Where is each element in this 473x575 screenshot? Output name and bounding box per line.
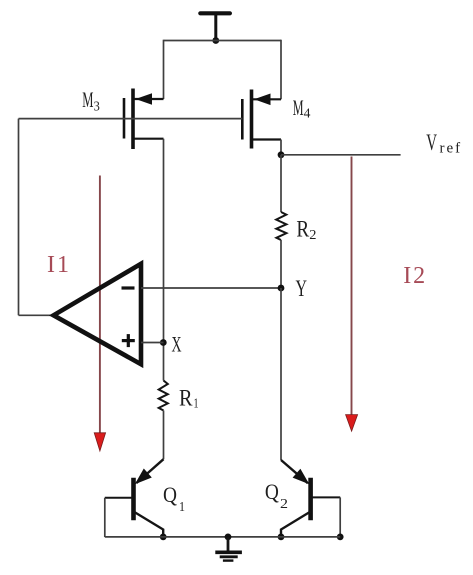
transistor M4 channel bar bbox=[250, 90, 254, 149]
transistor Q2 base bar bbox=[308, 478, 313, 520]
svg-text:3: 3 bbox=[94, 100, 100, 115]
resistor R1 bbox=[159, 381, 168, 411]
current arrow I1 (red line) bbox=[99, 176, 101, 437]
svg-text:X: X bbox=[172, 332, 182, 357]
op-amp plus symbol bbox=[122, 339, 135, 342]
power rail VDD stem bbox=[214, 14, 217, 41]
wire: plus input to node X bbox=[141, 342, 164, 344]
svg-text:1: 1 bbox=[179, 500, 185, 515]
wire: M4 source drop bbox=[280, 40, 282, 100]
wire: gate bus M3-M4 bbox=[19, 118, 243, 120]
transistor M3 source arrow bbox=[136, 93, 153, 105]
wire: Q1 base drop to bottom rail bbox=[104, 498, 106, 537]
wire: minus input to node Y bbox=[141, 287, 281, 289]
resistor R2 bbox=[276, 212, 286, 240]
svg-text:R: R bbox=[179, 386, 193, 411]
svg-text:4: 4 bbox=[304, 107, 311, 122]
svg-text:ref: ref bbox=[440, 141, 463, 157]
power rail VDD bar bbox=[200, 11, 230, 15]
svg-text:I1: I1 bbox=[47, 252, 71, 278]
wire: R2 down to node Y bbox=[280, 240, 282, 288]
wire: Q2 base drop to bottom rail bbox=[339, 497, 341, 537]
node: ground junction dot bbox=[225, 534, 232, 541]
wire: R1 to Q1 collector bbox=[163, 411, 165, 460]
transistor Q2 base wire bbox=[313, 496, 341, 498]
ground bar 1 bbox=[215, 550, 242, 554]
svg-text:R: R bbox=[296, 216, 309, 241]
wire: bottom rail bbox=[105, 536, 340, 538]
svg-text:Q: Q bbox=[265, 479, 279, 504]
wire: left branch M3 drain down to R1 bbox=[163, 139, 165, 381]
node: Q2 emitter dot bbox=[278, 534, 285, 541]
transistor Q1 collector arrow bbox=[135, 469, 152, 485]
transistor M4 source arrow bbox=[254, 94, 271, 106]
svg-text:Y: Y bbox=[296, 276, 308, 301]
wire: M4 drain down to Vref node bbox=[280, 140, 282, 155]
current arrow I1 (red head) bbox=[94, 433, 105, 451]
svg-text:I2: I2 bbox=[403, 263, 427, 289]
svg-text:2: 2 bbox=[280, 497, 288, 512]
transistor Q1 collector diagonal bbox=[137, 459, 164, 483]
op-amp U1 triangle bbox=[54, 264, 142, 364]
wire: Vref output bbox=[281, 154, 401, 156]
ground bar 3 bbox=[223, 559, 234, 561]
current arrow I2 (red line) bbox=[351, 157, 353, 417]
svg-text:Q: Q bbox=[163, 482, 177, 507]
transistor Q1 base bar bbox=[131, 478, 136, 520]
transistor M4 source line bbox=[253, 98, 281, 100]
ground bar 2 bbox=[220, 555, 238, 558]
wire: M3 source drop bbox=[163, 40, 165, 99]
ground stem bbox=[227, 537, 230, 552]
transistor Q2 collector arrow bbox=[293, 469, 310, 485]
transistor M3 drain line bbox=[135, 138, 164, 140]
transistor Q2 emitter diagonal bbox=[281, 512, 311, 538]
node X dot bbox=[160, 339, 167, 346]
svg-text:2: 2 bbox=[309, 228, 316, 243]
svg-text:M: M bbox=[293, 95, 304, 120]
node Y dot bbox=[278, 285, 285, 292]
svg-text:1: 1 bbox=[194, 397, 199, 412]
transistor M3 channel bar bbox=[131, 89, 135, 150]
transistor Q1 base wire bbox=[105, 497, 132, 499]
transistor Q1 emitter diagonal bbox=[134, 512, 164, 538]
wire: left feedback vertical bbox=[18, 119, 20, 316]
svg-text:M: M bbox=[82, 87, 93, 112]
transistor M3 gate bar bbox=[123, 98, 126, 139]
wire: Vref node down to R2 bbox=[280, 155, 282, 212]
current arrow I2 (red head) bbox=[346, 415, 358, 432]
op-amp minus symbol bbox=[122, 286, 135, 289]
node: VDD junction dot bbox=[212, 37, 219, 44]
wire: Y down to Q2 collector bbox=[280, 288, 282, 460]
transistor M4 gate bar bbox=[241, 99, 244, 140]
svg-text:V: V bbox=[426, 130, 437, 155]
transistor M4 drain line bbox=[253, 138, 281, 140]
node: Q1 emitter dot bbox=[160, 534, 167, 541]
node: Vref junction dot bbox=[278, 151, 285, 158]
node: Q2 base-rail dot bbox=[337, 534, 344, 541]
transistor Q2 collector diagonal bbox=[281, 460, 308, 483]
transistor M3 source line bbox=[135, 98, 164, 100]
wire: VDD rail horizontal bbox=[164, 40, 282, 42]
wire: op-amp output bbox=[19, 314, 54, 316]
